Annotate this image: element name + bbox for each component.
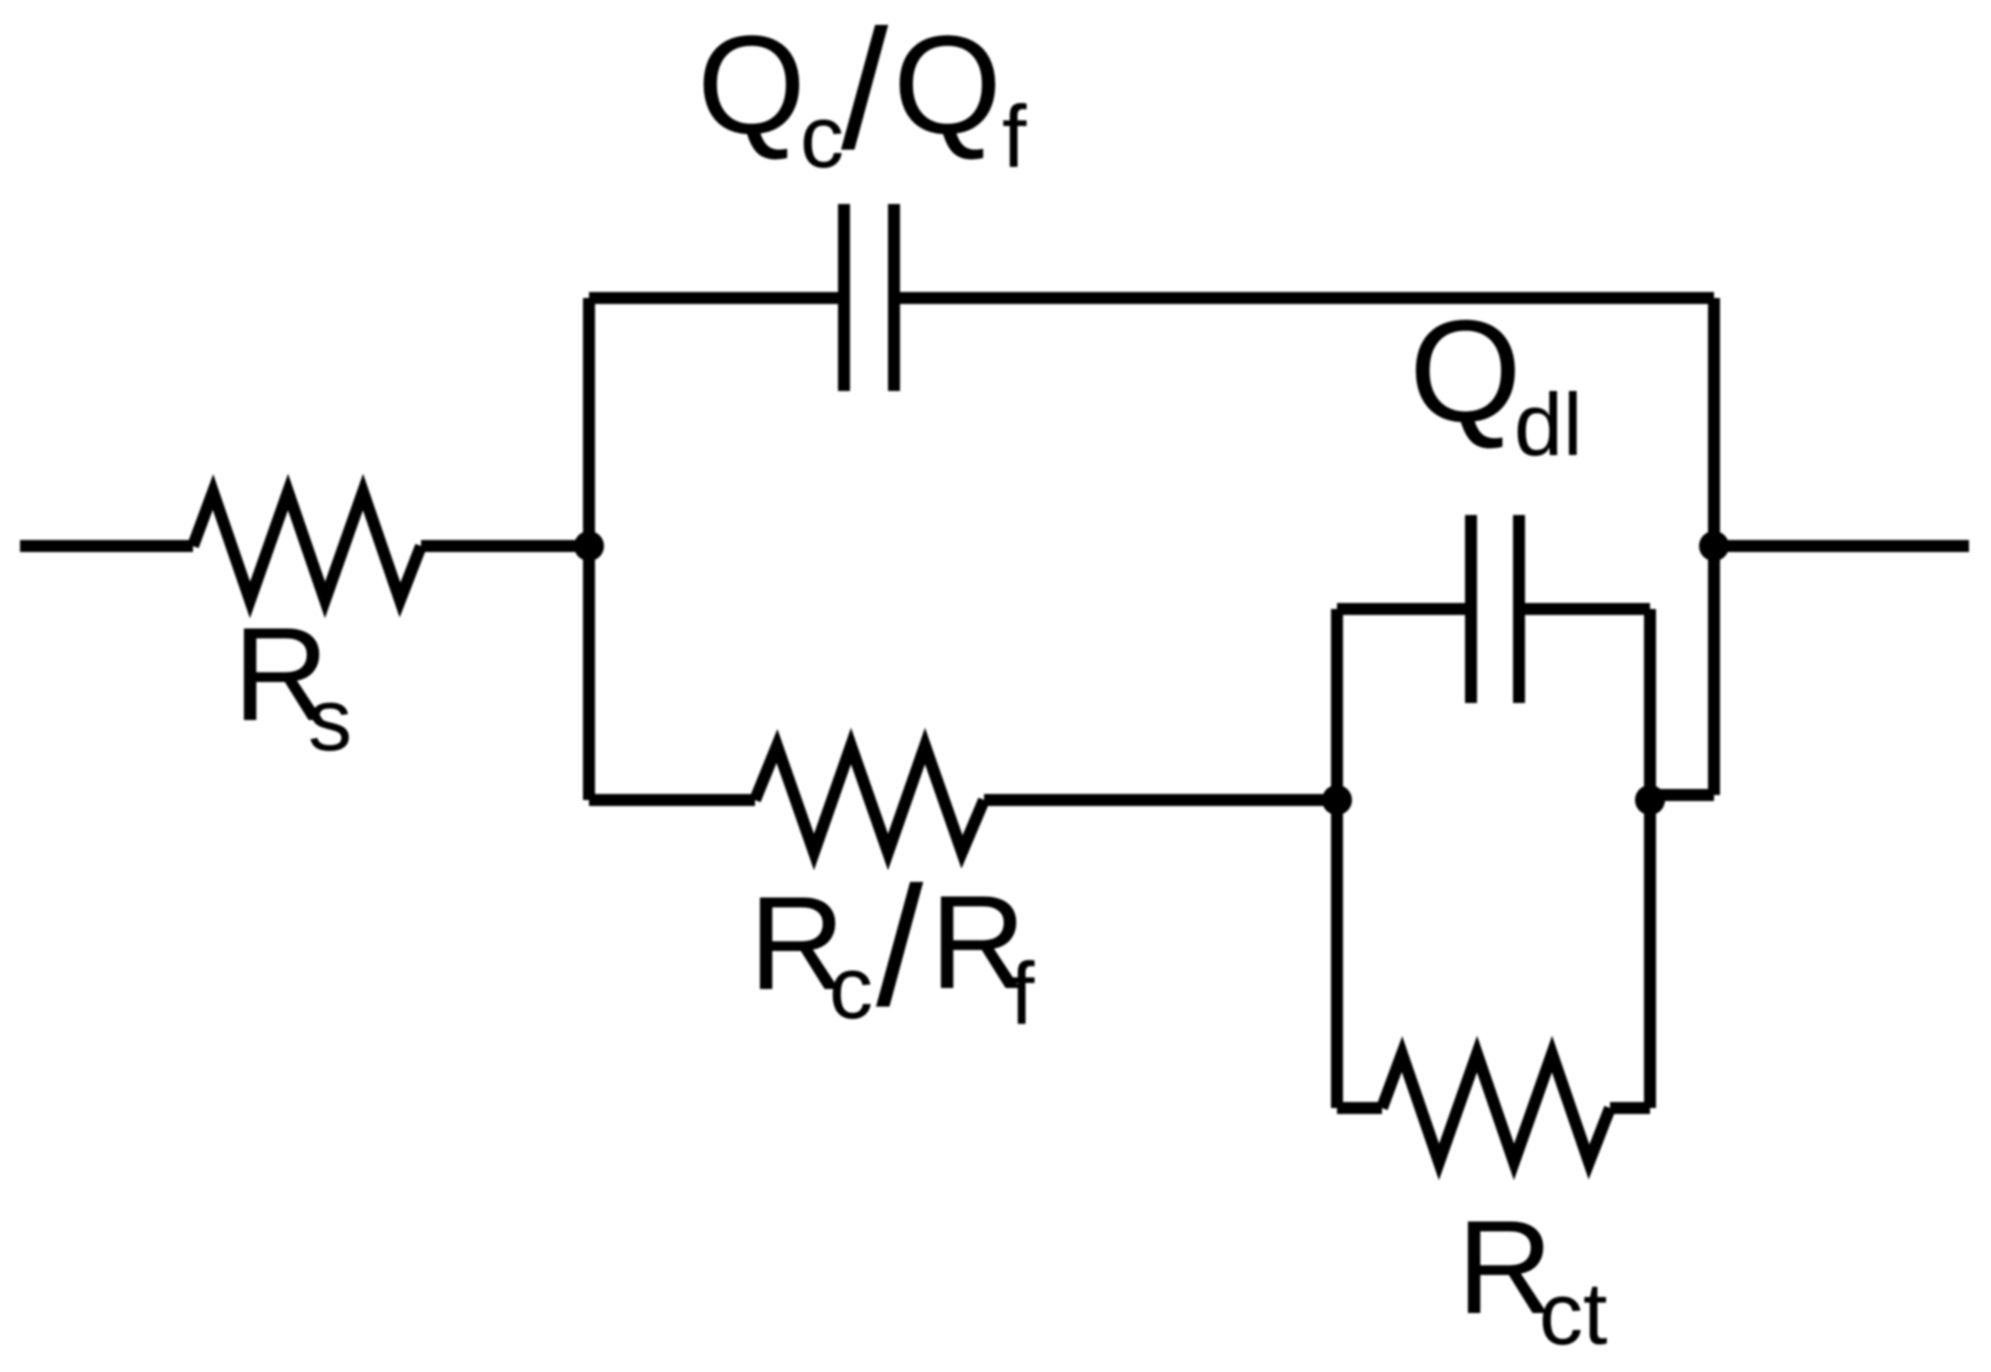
label Rs bbox=[233, 601, 352, 769]
capacitor Qc/Qf bbox=[844, 204, 894, 391]
node B bbox=[1322, 785, 1352, 815]
svg-text:Q: Q bbox=[1409, 290, 1522, 452]
wire bottom branch to node B bbox=[984, 794, 1337, 806]
wire right vertical bbox=[1708, 298, 1720, 795]
svg-text:Q: Q bbox=[697, 6, 806, 163]
svg-text:c: c bbox=[829, 938, 873, 1037]
wire output right bbox=[1714, 540, 1969, 552]
svg-text:s: s bbox=[308, 670, 352, 769]
wire box top left bbox=[1337, 603, 1466, 615]
label Rc/Rf bbox=[749, 852, 1035, 1043]
node output bbox=[1699, 531, 1729, 561]
wire vertical at node A bbox=[583, 298, 595, 800]
label Rct bbox=[1457, 1194, 1607, 1363]
resistor Rc/Rf bbox=[755, 746, 984, 852]
svg-text:/: / bbox=[876, 852, 924, 1042]
wire top branch right bbox=[894, 292, 1714, 304]
wire connector right to box bbox=[1650, 789, 1714, 801]
node C bbox=[1635, 785, 1665, 815]
wire box right vertical bbox=[1644, 609, 1656, 1108]
svg-text:c: c bbox=[800, 87, 844, 186]
label Qdl bbox=[1409, 290, 1583, 474]
resistor Rct bbox=[1382, 1054, 1610, 1162]
wire box bottom right bbox=[1610, 1102, 1650, 1114]
wire bottom branch left bbox=[589, 794, 755, 806]
svg-text:dl: dl bbox=[1514, 375, 1583, 474]
wire input left bbox=[20, 540, 193, 552]
svg-text:Q: Q bbox=[893, 6, 1002, 163]
svg-text:f: f bbox=[1010, 944, 1035, 1043]
resistor Rs bbox=[193, 492, 421, 600]
svg-text:ct: ct bbox=[1539, 1264, 1607, 1363]
wire box left vertical bbox=[1331, 609, 1343, 1108]
wire box top right bbox=[1524, 603, 1650, 615]
wire top branch left bbox=[589, 292, 844, 304]
capacitor Qdl bbox=[1471, 515, 1519, 703]
label Qc/Qf bbox=[697, 0, 1027, 186]
node A bbox=[574, 531, 604, 561]
wire Rs to node A bbox=[421, 540, 589, 552]
svg-text:/: / bbox=[841, 0, 889, 185]
wire box bottom left bbox=[1337, 1102, 1382, 1114]
svg-text:f: f bbox=[1002, 87, 1027, 186]
